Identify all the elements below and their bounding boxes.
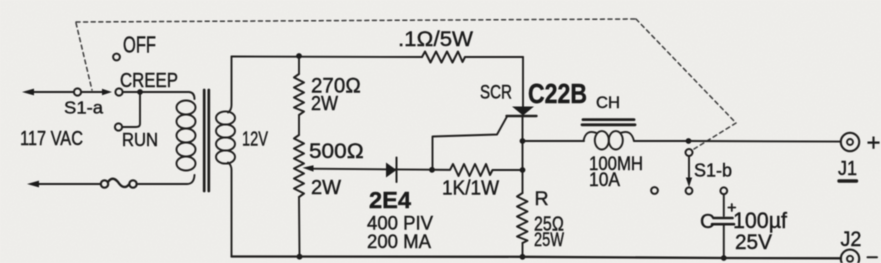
node: S1-b junction	[686, 138, 692, 144]
svg-text:CH: CH	[596, 93, 620, 112]
SCR C22B	[512, 107, 534, 116]
transformer T1 core	[203, 90, 206, 191]
jack J2	[841, 250, 859, 263]
svg-text:1K/1W: 1K/1W	[442, 178, 499, 200]
stray mark under J1	[839, 179, 857, 182]
wire: capacitor to bottom rail	[723, 224, 725, 258]
transformer T1 primary winding	[177, 101, 196, 115]
wire: secondary top feed	[228, 57, 232, 113]
wire: between 270 ohm and 500 ohm	[298, 115, 300, 135]
wiper arrow of 500 ohm rheostat	[310, 169, 432, 170]
node: capacitor at bottom rail	[721, 255, 727, 261]
wire: down to resistor R	[522, 170, 524, 193]
wire: output rail SCR to choke	[523, 140, 585, 142]
switch S1-a RUN contact	[115, 123, 122, 130]
svg-text:100µf: 100µf	[733, 208, 788, 233]
svg-text:500Ω: 500Ω	[309, 140, 364, 163]
wire: secondary bottom feed	[228, 163, 232, 257]
svg-text:25V: 25V	[735, 231, 772, 254]
wire: bottom rail	[232, 257, 842, 259]
svg-text:2W: 2W	[311, 177, 341, 199]
arrow on bottom AC feed	[27, 181, 39, 188]
svg-text:S1-b: S1-b	[694, 161, 732, 181]
svg-text:2E4: 2E4	[369, 187, 411, 213]
resistor 1K/1W	[432, 164, 522, 176]
switch S1-b arm	[688, 156, 690, 180]
svg-text:J2: J2	[841, 227, 862, 251]
switch S1-a arm	[82, 91, 104, 93]
svg-text:200 MA: 200 MA	[367, 231, 431, 253]
capacitor C 100uF plates	[714, 217, 733, 220]
switch S1-a OFF contact	[113, 54, 120, 61]
wire: bottom AC feed	[31, 183, 100, 185]
dashed mechanical linkage S1-a to S1-b	[76, 19, 736, 149]
minus sign at J2	[868, 256, 878, 258]
switch S1-a CREEP contact	[115, 88, 122, 95]
wire: node A up to gate level	[433, 117, 508, 170]
svg-text:2W: 2W	[311, 93, 338, 115]
node: SCR cathode to output rail	[520, 138, 526, 144]
wire: SCR cathode down	[522, 116, 524, 170]
svg-text:OFF: OFF	[123, 32, 156, 58]
fuse right terminal	[129, 180, 136, 187]
wire: junction down to RUN contact	[123, 92, 141, 127]
choke CH core	[583, 118, 634, 121]
node: 500 ohm at bottom rail	[297, 254, 303, 260]
switch S1-a pivot contact	[74, 88, 81, 95]
wire: 500 ohm to bottom rail	[298, 197, 301, 257]
wire: choke to S1-b junction	[634, 140, 689, 142]
fuse element	[108, 179, 129, 187]
svg-text:J1: J1	[838, 157, 857, 180]
svg-text:S1-a: S1-a	[64, 98, 103, 118]
svg-text:.1Ω/5W: .1Ω/5W	[398, 28, 473, 51]
capacitor plus sign	[728, 204, 735, 211]
wire: CREEP contact to primary	[123, 92, 195, 99]
svg-text:SCR: SCR	[480, 83, 512, 104]
node: cathode meets 1K	[520, 167, 526, 173]
fuse left terminal	[101, 180, 108, 187]
switch S1-b left contact	[651, 187, 658, 194]
resistor .1 ohm / 5W	[422, 52, 465, 63]
wire: junction to J1	[689, 140, 841, 143]
switch S1-b pivot contact	[686, 149, 693, 156]
svg-text:CREEP: CREEP	[120, 69, 178, 92]
arrow on top AC feed	[22, 89, 34, 96]
switch S1-b right contact (to C)	[720, 187, 727, 194]
wire: node to 270 ohm	[298, 56, 300, 74]
node A: gate junction	[429, 167, 435, 173]
wire: R to bottom rail	[522, 243, 524, 257]
resistor 270 ohm 2W	[294, 74, 304, 115]
wire: SCR anode	[522, 57, 524, 107]
choke CH winding	[584, 132, 597, 141]
node: junction at CREEP	[137, 89, 143, 95]
svg-text:C: C	[700, 210, 715, 233]
resistor R 25 ohm 25W	[517, 193, 528, 243]
wire: top rail	[232, 56, 423, 59]
svg-text:RUN: RUN	[122, 129, 158, 150]
svg-text:+: +	[867, 130, 881, 157]
svg-text:C22B: C22B	[528, 78, 587, 109]
jack J1	[841, 133, 859, 151]
rheostat 500 ohm 2W	[294, 135, 304, 197]
svg-text:12V: 12V	[242, 128, 268, 151]
node: R at bottom rail	[520, 254, 526, 260]
wire: fuse to primary bottom	[137, 175, 195, 184]
svg-text:10A: 10A	[589, 170, 620, 191]
transformer T1 secondary winding	[216, 111, 235, 124]
svg-text:R: R	[535, 188, 549, 210]
node: top of 270 ohm resistor	[296, 53, 302, 59]
svg-text:117 VAC: 117 VAC	[20, 127, 83, 150]
svg-text:25W: 25W	[534, 229, 564, 251]
wire: top AC feed	[26, 91, 74, 93]
wire: contact down to capacitor	[723, 194, 725, 216]
wire: top rail right segment	[465, 56, 523, 58]
diode 2E4	[386, 163, 397, 178]
switch S1-b middle contact	[686, 187, 693, 194]
